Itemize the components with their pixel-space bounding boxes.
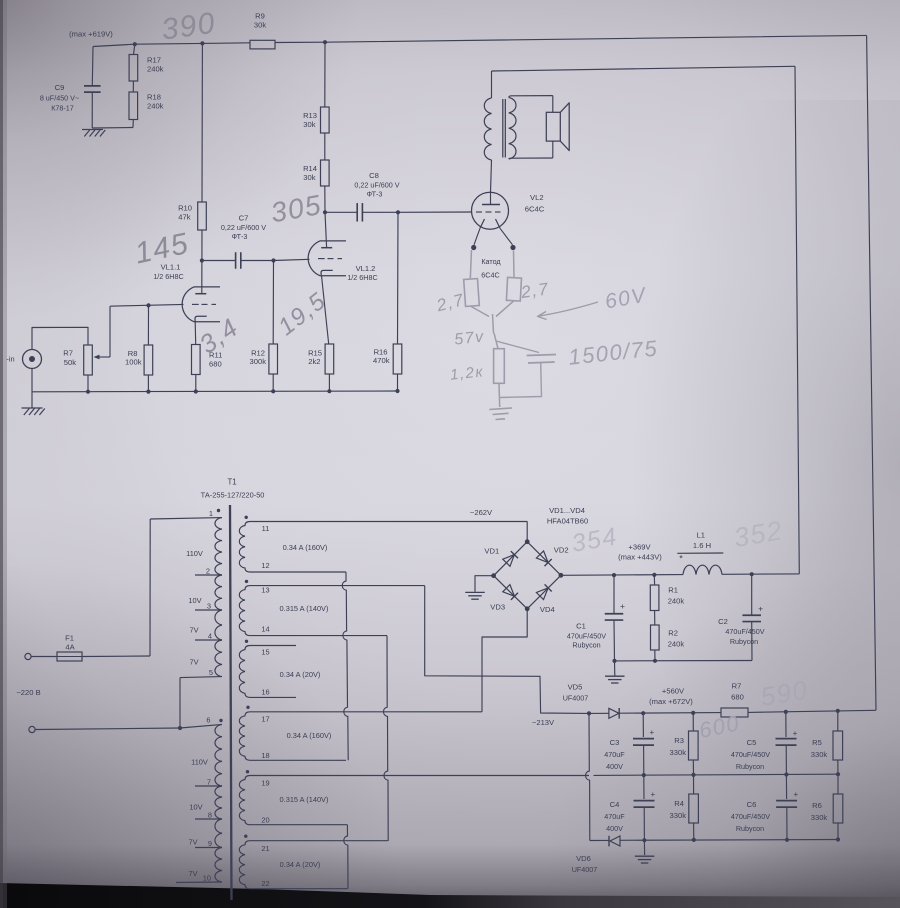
svg-text:~220 В: ~220 В xyxy=(16,688,40,697)
capacitor C9 xyxy=(91,47,94,86)
svg-text:470uF/450V: 470uF/450V xyxy=(725,627,764,636)
svg-text:13: 13 xyxy=(261,586,269,595)
diode VD3 xyxy=(503,585,515,597)
VL2 cathode pins xyxy=(474,228,480,245)
svg-text:10V: 10V xyxy=(188,596,201,605)
+369V rail xyxy=(561,574,683,577)
svg-text:680: 680 xyxy=(209,360,222,369)
svg-text:240k: 240k xyxy=(147,102,164,111)
pencil resistor 2,7 right xyxy=(513,251,516,278)
svg-text:240k: 240k xyxy=(668,597,685,606)
capacitor C1 xyxy=(613,575,615,613)
svg-text:C7: C7 xyxy=(239,214,249,223)
svg-text:+: + xyxy=(758,604,763,614)
ground bus of +369V filter xyxy=(615,660,753,662)
T1 secondary winding 19-20 xyxy=(239,776,589,825)
svg-text:110V: 110V xyxy=(186,549,203,558)
svg-text:100k: 100k xyxy=(125,358,142,367)
bridge ground xyxy=(475,576,494,592)
T1 primary winding lower xyxy=(215,724,222,786)
T1 core xyxy=(230,505,232,900)
wire jack to ground xyxy=(31,369,33,408)
svg-text:Rubycon: Rubycon xyxy=(572,641,600,650)
svg-text:7V: 7V xyxy=(188,838,197,847)
wire bridge AC2 jog xyxy=(482,609,527,712)
svg-text:Катод: Катод xyxy=(481,257,501,266)
wire jack to R7 xyxy=(32,327,88,349)
svg-text:0.34 A (160V): 0.34 A (160V) xyxy=(283,543,328,552)
resistor R5 xyxy=(837,711,839,731)
svg-text:12: 12 xyxy=(261,561,269,570)
svg-text:57v: 57v xyxy=(454,328,486,348)
svg-text:400V: 400V xyxy=(606,824,623,833)
svg-text:VD3: VD3 xyxy=(490,603,505,612)
svg-text:16: 16 xyxy=(261,688,269,697)
svg-text:L1: L1 xyxy=(696,531,704,540)
svg-text:ФТ-3: ФТ-3 xyxy=(232,232,248,241)
pencil node wires xyxy=(470,306,489,317)
svg-text:21: 21 xyxy=(261,844,269,853)
capacitor C5 xyxy=(785,712,787,737)
svg-text:VD1: VD1 xyxy=(484,547,499,556)
VL2 grid dashes xyxy=(476,211,482,213)
resistor R4 xyxy=(693,775,695,794)
svg-text:7V: 7V xyxy=(189,658,198,667)
svg-text:VD1...VD4: VD1...VD4 xyxy=(549,506,585,515)
svg-text:~262V: ~262V xyxy=(470,508,493,517)
VL1.1 anode xyxy=(201,261,203,294)
wire F1 to tap 1 xyxy=(149,519,151,656)
svg-text:6С4С: 6С4С xyxy=(525,205,545,214)
wire 20 down to 22 with hop xyxy=(344,825,348,889)
svg-text:330k: 330k xyxy=(670,811,687,820)
svg-text:(max +619V): (max +619V) xyxy=(69,30,113,39)
svg-text:C9: C9 xyxy=(55,83,65,92)
VL1.1 cathode xyxy=(195,316,207,321)
svg-text:240k: 240k xyxy=(147,65,164,74)
resistor R18 xyxy=(129,92,138,120)
svg-text:R14: R14 xyxy=(303,164,317,173)
diode VD6 xyxy=(610,836,620,846)
svg-text:6: 6 xyxy=(206,716,210,725)
svg-text:VD6: VD6 xyxy=(576,854,591,863)
triode VL1.1 envelope xyxy=(182,287,220,322)
svg-text:240k: 240k xyxy=(668,640,685,649)
svg-text:C2: C2 xyxy=(718,617,728,626)
svg-text:T1: T1 xyxy=(227,478,236,487)
speaker xyxy=(552,96,554,113)
VL1.2 cathode xyxy=(321,270,333,275)
svg-text:R4: R4 xyxy=(674,799,684,808)
svg-text:0.34 A (20V): 0.34 A (20V) xyxy=(280,670,321,679)
svg-text:470k: 470k xyxy=(373,356,390,365)
svg-text:22: 22 xyxy=(261,879,269,888)
svg-text:+560V: +560V xyxy=(662,687,685,696)
resistor R12 xyxy=(272,261,274,345)
capacitor C6 xyxy=(785,775,787,800)
svg-text:30k: 30k xyxy=(254,21,266,30)
svg-text:+: + xyxy=(620,601,625,611)
svg-text:R10: R10 xyxy=(178,204,192,213)
wire top rail to R13 xyxy=(324,42,326,107)
svg-text:К78-17: К78-17 xyxy=(51,104,74,113)
svg-text:+369V: +369V xyxy=(628,543,651,552)
svg-text:4: 4 xyxy=(208,632,212,641)
svg-text:2k2: 2k2 xyxy=(308,357,320,366)
wire ~213V feed to VD5 xyxy=(482,676,589,713)
svg-text:47k: 47k xyxy=(178,213,190,222)
svg-text:110V: 110V xyxy=(191,758,208,767)
triode VL1.2 envelope xyxy=(308,241,346,276)
svg-text:+: + xyxy=(649,728,654,737)
svg-text:7V: 7V xyxy=(189,626,198,635)
svg-text:330k: 330k xyxy=(811,750,828,759)
svg-text:R9: R9 xyxy=(255,12,265,21)
ground below C9 xyxy=(92,127,133,130)
triode VL2 xyxy=(472,192,509,229)
resistor R14 xyxy=(321,160,330,186)
wire R10 to anode node xyxy=(201,230,203,261)
VL2 anode xyxy=(482,204,500,206)
capacitor C3 xyxy=(642,713,644,737)
resistor R15 xyxy=(325,344,334,374)
svg-text:(max +443V): (max +443V) xyxy=(618,553,662,562)
svg-text:Rubycon: Rubycon xyxy=(736,824,764,833)
svg-text:R11: R11 xyxy=(209,351,222,360)
mid bus ~213V node xyxy=(594,774,839,775)
svg-text:C4: C4 xyxy=(610,800,620,809)
input terminal 2 xyxy=(29,726,35,732)
ground below C4 xyxy=(643,840,645,855)
svg-text:50k: 50k xyxy=(64,358,76,367)
svg-text:0.315 A (140V): 0.315 A (140V) xyxy=(280,795,329,804)
wire R17-R18 xyxy=(132,81,134,92)
svg-text:1/2 6Н8С: 1/2 6Н8С xyxy=(347,273,377,282)
svg-text:ФТ-3: ФТ-3 xyxy=(367,190,383,199)
svg-text:*: * xyxy=(679,554,683,564)
svg-text:8: 8 xyxy=(208,811,212,820)
VL2 filament xyxy=(480,219,485,228)
resistor R10 xyxy=(198,202,207,230)
svg-text:0,22 uF/600 V: 0,22 uF/600 V xyxy=(221,223,266,232)
svg-text:20: 20 xyxy=(261,816,269,825)
svg-text:8 uF/450 V~: 8 uF/450 V~ xyxy=(40,94,79,103)
input jack -in xyxy=(23,350,42,369)
svg-text:470uF: 470uF xyxy=(604,750,625,759)
grid wire to VL1.1 xyxy=(110,304,184,306)
pencil capacitor 1500/75 xyxy=(496,341,539,353)
svg-text:30k: 30k xyxy=(303,120,315,129)
svg-text:+: + xyxy=(793,729,798,738)
T1 secondary winding 15-16 xyxy=(239,646,296,698)
svg-text:UF4007: UF4007 xyxy=(572,865,598,874)
svg-text:470uF/450V: 470uF/450V xyxy=(731,812,770,821)
diode VD4 xyxy=(536,588,548,600)
resistor R6 xyxy=(837,774,839,794)
resistor R8 xyxy=(147,305,149,345)
wire +369V riser to OT rail xyxy=(795,66,799,574)
capacitor C7 xyxy=(202,260,236,262)
resistor R1 xyxy=(653,575,655,585)
VL1.1 grid dashes xyxy=(192,303,199,305)
svg-text:400V: 400V xyxy=(606,762,623,771)
potentiometer R7 xyxy=(84,345,93,375)
pencil resistor 1,2k xyxy=(494,333,498,349)
svg-text:5: 5 xyxy=(209,668,213,677)
pencil resistor 2,7 left xyxy=(470,250,471,279)
svg-text:470uF/450V: 470uF/450V xyxy=(567,632,606,641)
svg-text:0,22 uF/600 V: 0,22 uF/600 V xyxy=(354,181,399,190)
svg-text:R7: R7 xyxy=(732,682,742,691)
svg-text:R13: R13 xyxy=(303,111,317,120)
svg-text:2: 2 xyxy=(206,567,210,576)
choke L1 xyxy=(683,565,722,574)
svg-text:ТА-255-127/220-50: ТА-255-127/220-50 xyxy=(201,491,265,500)
svg-text:UF4007: UF4007 xyxy=(563,694,589,703)
T1 primary winding upper xyxy=(215,518,222,575)
T1 secondary winding 17-18 xyxy=(239,712,482,761)
svg-text:0.34 A (20V): 0.34 A (20V) xyxy=(280,860,321,869)
OT secondary xyxy=(509,98,516,160)
svg-text:330k: 330k xyxy=(670,748,687,757)
wire right edge down to +560V rail xyxy=(867,35,876,710)
svg-text:HFA04TB60: HFA04TB60 xyxy=(547,517,588,526)
secondary phase dots xyxy=(245,516,248,519)
svg-text:R1: R1 xyxy=(668,586,678,595)
svg-text:1/2 6Н8С: 1/2 6Н8С xyxy=(153,272,183,281)
diode VD2 xyxy=(536,551,548,563)
svg-text:300k: 300k xyxy=(250,357,267,366)
svg-text:C1: C1 xyxy=(576,622,586,631)
svg-text:470uF: 470uF xyxy=(604,812,625,821)
svg-text:+: + xyxy=(650,790,655,799)
svg-text:VD2: VD2 xyxy=(554,546,569,555)
svg-text:C8: C8 xyxy=(369,171,379,180)
bottom bus xyxy=(590,839,609,841)
svg-text:470uF/450V: 470uF/450V xyxy=(731,750,770,759)
svg-text:10: 10 xyxy=(203,874,211,883)
svg-text:C6: C6 xyxy=(747,800,757,809)
svg-text:30k: 30k xyxy=(303,173,315,182)
svg-text:C5: C5 xyxy=(747,738,757,747)
T1 secondary winding 13-14 xyxy=(239,586,424,636)
resistor R2 xyxy=(654,611,656,626)
svg-text:VD4: VD4 xyxy=(540,605,555,614)
svg-text:7: 7 xyxy=(207,778,211,787)
svg-text:F1: F1 xyxy=(65,634,74,643)
svg-text:2,7: 2,7 xyxy=(519,279,551,302)
ground below jack xyxy=(22,407,43,409)
R7 wiper arrow xyxy=(96,356,111,358)
svg-text:R5: R5 xyxy=(812,738,822,747)
svg-text:R6: R6 xyxy=(812,801,822,810)
resistor R16 xyxy=(397,212,400,344)
svg-text:VL1.2: VL1.2 xyxy=(356,264,376,273)
VL1.2 anode xyxy=(325,212,327,247)
svg-text:1.6 H: 1.6 H xyxy=(693,541,711,550)
svg-text:R3: R3 xyxy=(674,736,684,745)
left vertical with hop (VD5 anode to VD6) xyxy=(586,713,590,840)
svg-text:9: 9 xyxy=(208,839,212,848)
svg-text:VL2: VL2 xyxy=(530,193,544,202)
capacitor C4 xyxy=(643,775,645,799)
capacitor C8 xyxy=(325,211,357,213)
node +619V top supply rail xyxy=(93,43,250,47)
svg-text:14: 14 xyxy=(261,625,269,634)
svg-text:17: 17 xyxy=(261,715,269,724)
ground below C1 xyxy=(614,661,616,676)
svg-text:0.34 A (160V): 0.34 A (160V) xyxy=(287,731,332,740)
svg-text:330k: 330k xyxy=(811,813,828,822)
wire winding 11 to bridge xyxy=(526,521,528,541)
resistor R3 xyxy=(692,713,694,731)
svg-text:10V: 10V xyxy=(189,803,202,812)
T1 secondary winding 21-22 xyxy=(239,841,387,889)
wire 14 down to 21 with hops xyxy=(383,636,388,841)
svg-text:Rubycon: Rubycon xyxy=(730,637,758,646)
svg-text:6С4С: 6С4С xyxy=(481,271,499,280)
svg-text:15: 15 xyxy=(261,648,269,657)
svg-text:0.315 A (140V): 0.315 A (140V) xyxy=(280,604,329,613)
resistor R9 xyxy=(250,40,275,49)
svg-text:Rubycon: Rubycon xyxy=(736,762,764,771)
svg-text:C3: C3 xyxy=(610,738,620,747)
svg-text:19: 19 xyxy=(261,779,269,788)
output transformer OT primary xyxy=(491,71,493,98)
svg-text:VD5: VD5 xyxy=(568,683,583,692)
diode VD1 xyxy=(503,555,515,567)
svg-text:-in: -in xyxy=(6,355,14,364)
+560V rail xyxy=(589,712,609,714)
svg-text:3: 3 xyxy=(207,602,211,611)
capacitor C2 xyxy=(751,574,753,615)
OT top rail xyxy=(492,66,796,71)
wire top rail to R10 xyxy=(201,43,203,202)
resistor R11 xyxy=(192,345,201,375)
diode VD5 xyxy=(609,708,619,718)
primary phase dots xyxy=(217,509,220,512)
svg-text:VL1.1: VL1.1 xyxy=(161,263,181,272)
svg-text:(max +672V): (max +672V) xyxy=(649,697,693,706)
svg-text:1: 1 xyxy=(209,509,213,518)
fuse F1 xyxy=(25,653,31,659)
resistor R7 680 xyxy=(721,708,748,717)
svg-text:4A: 4A xyxy=(65,643,75,652)
VL1.2 grid dashes xyxy=(318,258,325,260)
svg-text:680: 680 xyxy=(731,693,744,702)
svg-text:R7: R7 xyxy=(63,349,73,358)
T1 secondary winding 11-12 xyxy=(239,522,527,573)
primary taps xyxy=(195,574,222,576)
resistor R17 xyxy=(134,44,135,54)
svg-text:R2: R2 xyxy=(668,629,678,638)
svg-text:7V: 7V xyxy=(188,869,197,878)
svg-text:R17: R17 xyxy=(147,56,161,65)
ground bus bottom of amp xyxy=(32,390,398,393)
pencil ground xyxy=(498,383,501,407)
svg-text:1,2к: 1,2к xyxy=(449,363,485,383)
svg-text:11: 11 xyxy=(262,524,270,533)
bridge rectifier diamond xyxy=(494,542,561,609)
wire 13 to AC2 node xyxy=(425,586,482,677)
OT core xyxy=(502,99,504,158)
svg-text:+: + xyxy=(793,790,798,799)
resistor R13 xyxy=(321,107,330,133)
svg-text:18: 18 xyxy=(261,751,269,760)
svg-text:R18: R18 xyxy=(147,93,161,102)
wire 12 to 18 with hops xyxy=(342,572,348,760)
svg-text:~213V: ~213V xyxy=(532,718,555,727)
